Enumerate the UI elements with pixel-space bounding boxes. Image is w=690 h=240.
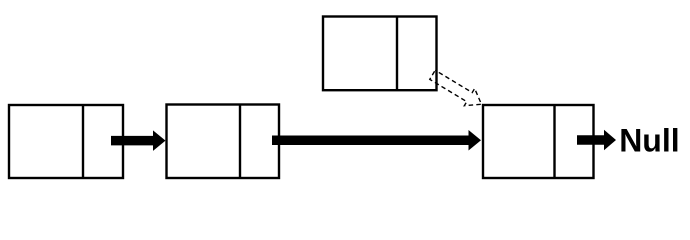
node1 divider xyxy=(82,105,84,178)
node4 divider xyxy=(553,105,555,178)
svg-text:Null: Null xyxy=(619,123,679,159)
arrow node1 to node2 xyxy=(111,130,166,151)
arrow node4 to Null xyxy=(577,130,616,150)
dashed insert arrow node3 to node4 xyxy=(430,70,482,105)
node3 divider xyxy=(396,17,398,91)
node2 box xyxy=(167,105,280,179)
node2 divider xyxy=(239,105,241,179)
node1 box xyxy=(9,105,123,178)
node4 box xyxy=(483,105,594,178)
arrow node2 to node4 xyxy=(272,130,481,151)
node3 box (inserted node, top) xyxy=(323,17,437,91)
